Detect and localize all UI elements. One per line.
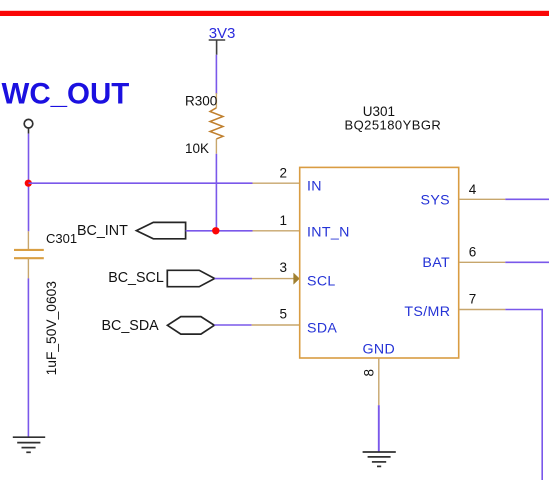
- pin 2 lead: [253, 182, 300, 184]
- svg-text:1uF_50V_0603: 1uF_50V_0603: [44, 281, 59, 376]
- pin 4 lead: [459, 198, 506, 200]
- svg-text:SDA: SDA: [307, 321, 337, 337]
- connector symbol BC_SCL (input, points right): [167, 270, 214, 286]
- sheet border top red line: [0, 11, 549, 16]
- connector symbol BC_INT (output, points left): [136, 222, 185, 238]
- pin 1 lead: [253, 230, 300, 232]
- wire WC_OUT vertical to capacitor: [28, 134, 30, 232]
- svg-text:SYS: SYS: [421, 192, 450, 208]
- svg-text:GND: GND: [363, 342, 396, 358]
- pin 7 lead: [459, 309, 506, 311]
- wire SYS to right edge: [505, 198, 549, 200]
- svg-text:1: 1: [279, 213, 287, 228]
- wire resistor bottom to junction on INT_N line: [215, 154, 217, 231]
- svg-text:8: 8: [362, 369, 377, 377]
- svg-text:6: 6: [469, 245, 477, 260]
- connector symbol BC_SDA (bidirectional hexagon): [167, 317, 214, 335]
- svg-text:IN: IN: [307, 179, 322, 195]
- wire TS/MR right then down: [505, 310, 542, 481]
- wire capacitor to ground: [27, 278, 29, 437]
- wire BAT to right edge: [505, 261, 549, 263]
- svg-text:2: 2: [279, 166, 287, 181]
- wire BC_SCL to IC pin SCL: [215, 278, 252, 280]
- resistor R300: [210, 93, 223, 154]
- wire BC_INT to IC pin INT_N: [186, 230, 253, 232]
- wire BC_SDA to IC pin SDA: [214, 324, 251, 326]
- pin 5 lead: [252, 324, 300, 326]
- svg-text:C301: C301: [46, 231, 77, 246]
- wire GND pin to ground: [378, 405, 380, 452]
- svg-text:BC_INT: BC_INT: [77, 223, 128, 239]
- pin 3 input arrow: [294, 273, 300, 284]
- svg-text:WC_OUT: WC_OUT: [2, 78, 130, 111]
- pin 8 lead: [378, 358, 380, 405]
- power port 3V3: [209, 25, 236, 55]
- ground symbol left: [13, 437, 45, 452]
- svg-text:BQ25180YBGR: BQ25180YBGR: [345, 117, 442, 132]
- svg-text:R300: R300: [185, 93, 217, 108]
- wire WC_OUT to IC pin IN: [29, 182, 253, 184]
- pin 3 lead: [252, 278, 294, 280]
- capacitor C301: [14, 231, 44, 278]
- svg-text:3: 3: [279, 260, 287, 275]
- ground symbol right: [363, 452, 396, 466]
- svg-text:4: 4: [469, 182, 477, 197]
- svg-text:7: 7: [469, 292, 477, 307]
- svg-text:5: 5: [279, 306, 287, 321]
- terminal circle WC_OUT: [24, 119, 33, 128]
- pin 6 lead: [459, 261, 506, 263]
- IC U301 body: [300, 167, 459, 358]
- junction dot WC_OUT / IN wire: [25, 180, 32, 187]
- svg-text:INT_N: INT_N: [307, 224, 350, 240]
- svg-text:10K: 10K: [185, 141, 209, 156]
- svg-text:BC_SCL: BC_SCL: [108, 270, 164, 286]
- wire 3V3 to resistor R1 top: [215, 55, 217, 94]
- svg-text:SCL: SCL: [307, 274, 336, 290]
- junction dot INT_N / resistor: [212, 227, 219, 234]
- svg-text:BC_SDA: BC_SDA: [102, 318, 160, 334]
- svg-text:BAT: BAT: [422, 255, 450, 271]
- svg-text:TS/MR: TS/MR: [404, 304, 450, 320]
